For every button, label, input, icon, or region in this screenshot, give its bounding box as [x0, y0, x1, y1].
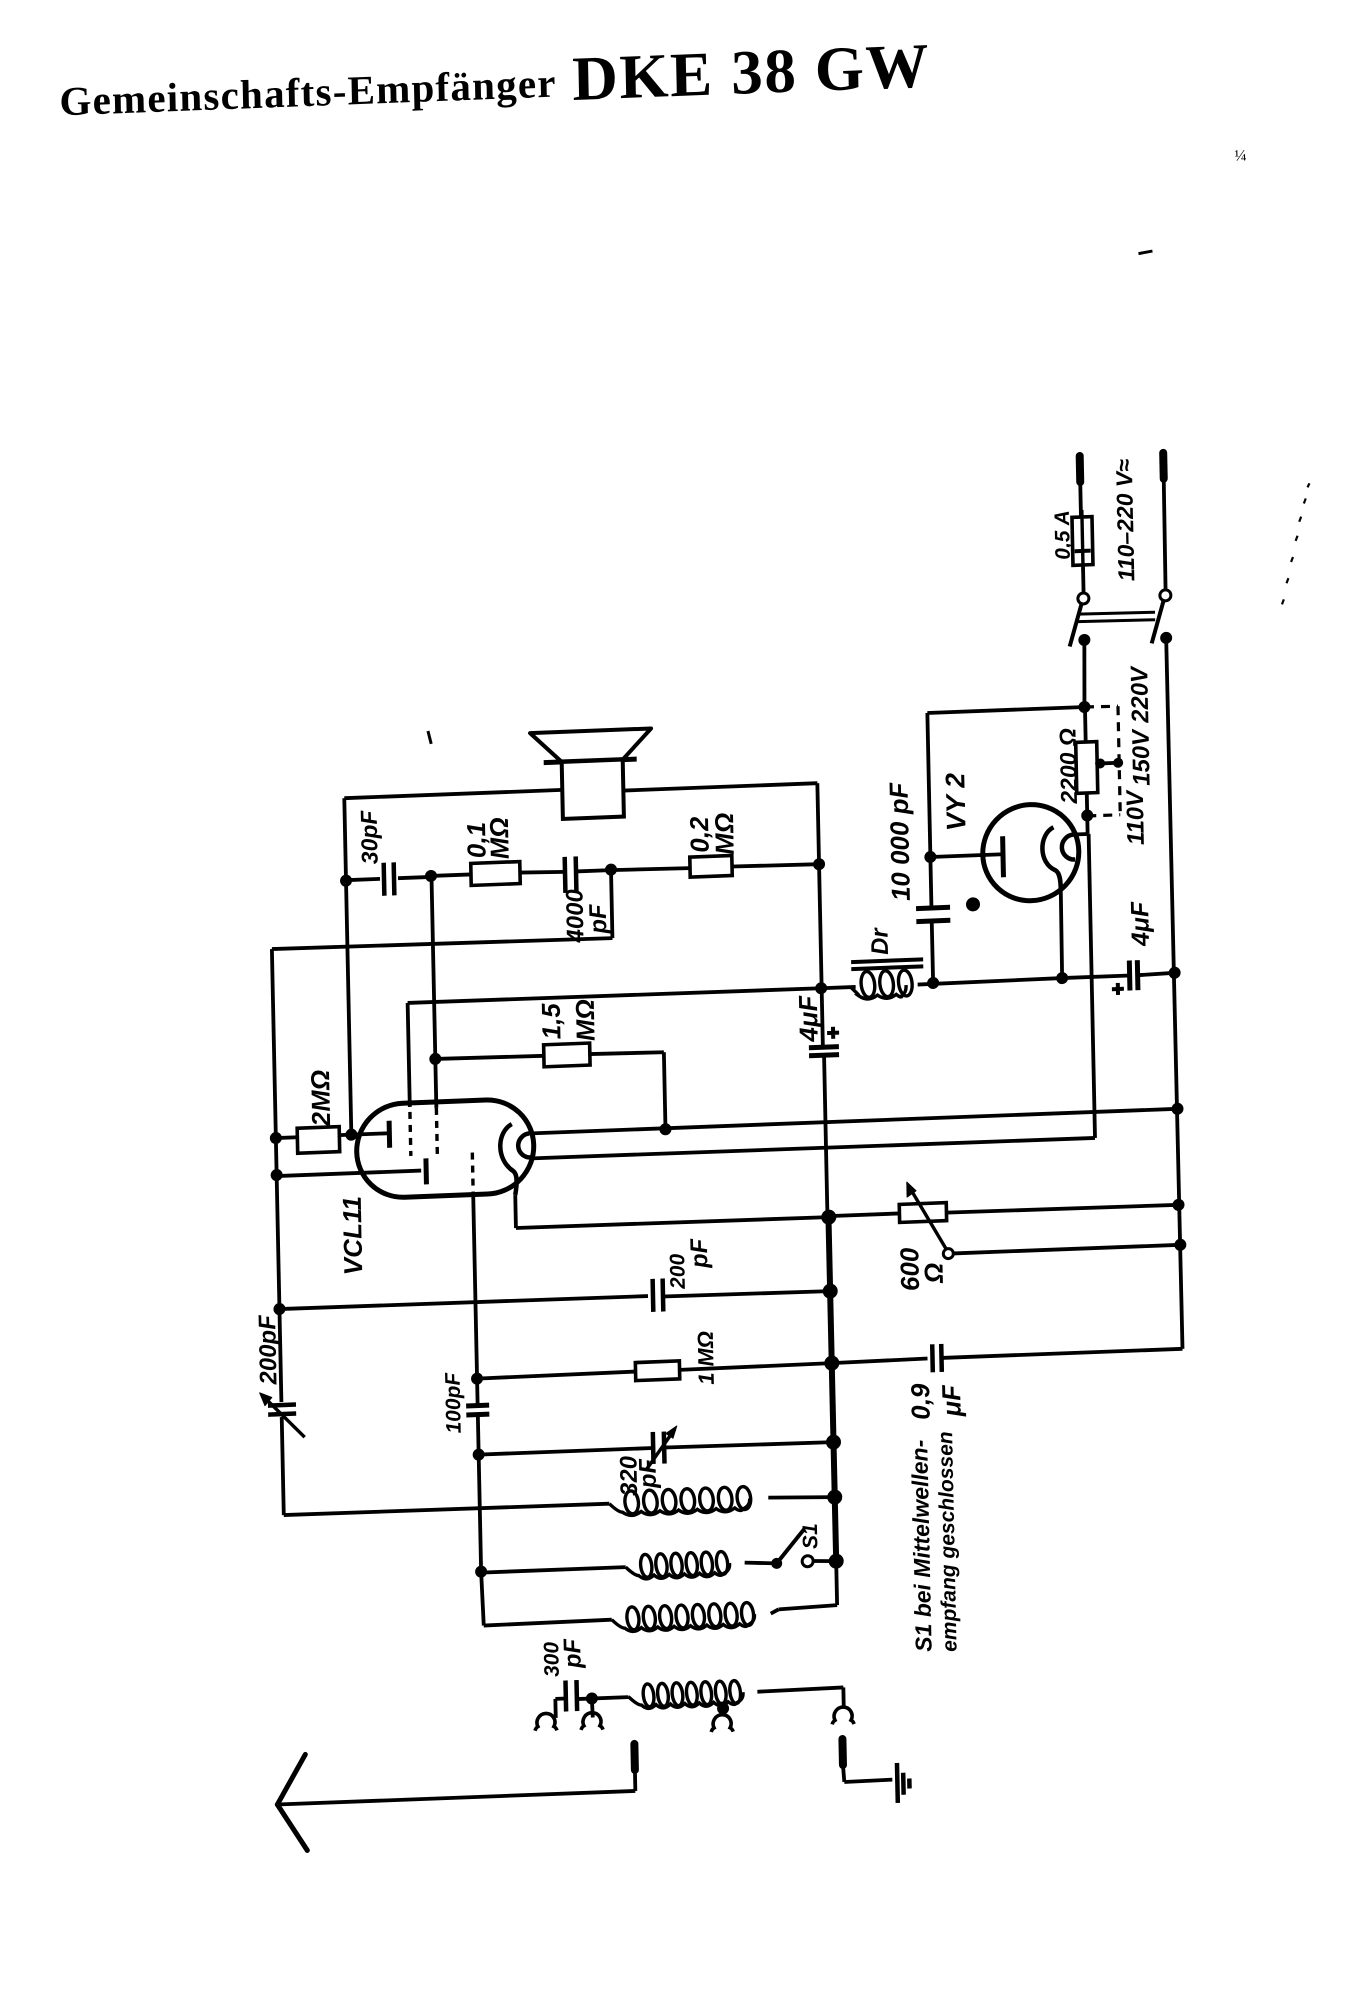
svg-text:empfang geschlossen: empfang geschlossen	[934, 1431, 962, 1652]
node tap left	[1095, 758, 1105, 768]
tube VCL11 envelope	[356, 1098, 535, 1199]
wire 300pF left	[555, 1697, 566, 1701]
node 30pF corner	[340, 874, 352, 886]
node screen rail at main vertical	[815, 982, 827, 994]
wire coil3 left	[484, 1620, 612, 1626]
dashed vertical taps	[1118, 706, 1120, 815]
capacitor 0,9uF	[930, 1344, 935, 1372]
capacitor 100pF	[466, 1403, 489, 1409]
svg-text:Gemeinschafts-Empfänger: Gemeinschafts-Empfänger	[59, 60, 556, 125]
wire screen rail	[408, 987, 821, 1004]
wire 600 right	[946, 1204, 1179, 1214]
wire 30pF line	[346, 879, 380, 880]
node 600 right rail	[1172, 1199, 1184, 1211]
svg-text:4μF: 4μF	[1126, 901, 1155, 948]
wire right prong down	[1163, 479, 1166, 590]
svg-text:150V: 150V	[1127, 727, 1155, 786]
wire 2M left	[276, 1135, 298, 1140]
wire 1,5M right	[590, 1051, 664, 1055]
svg-text:S1: S1	[799, 1523, 823, 1550]
wire 150V tap	[1097, 761, 1119, 766]
svg-text:1,5: 1,5	[536, 1002, 567, 1040]
node frame top right	[1078, 701, 1090, 713]
wire B+ rail left	[821, 987, 856, 988]
wire right vertical speaker/0.2M/rail	[817, 783, 823, 1047]
wire 30pF left vertical	[344, 798, 351, 1135]
wire 320pF line	[479, 1448, 654, 1455]
wire coil2 left	[481, 1567, 625, 1572]
wire VCL11 cathode down	[513, 1195, 517, 1228]
wire 100pF down	[476, 1415, 481, 1455]
wire 4uF first to junction	[824, 1055, 827, 1215]
svg-text:10 000 pF: 10 000 pF	[883, 781, 915, 902]
scanner streak dashes	[1282, 599, 1284, 604]
node 2M left	[270, 1132, 282, 1144]
svg-text:100pF: 100pF	[441, 1371, 465, 1434]
fuse 0,5A	[1072, 517, 1093, 566]
wire 4000pF return horizontal	[272, 936, 613, 951]
wire VY2 heater lead	[1074, 832, 1088, 836]
wire coil2 node down	[481, 1572, 484, 1626]
node B+ right rail	[1168, 967, 1180, 979]
tube grid dash 2	[435, 1108, 439, 1154]
wire grid vertical from 30pF node	[431, 876, 436, 1108]
wire switch to frame	[1083, 640, 1086, 707]
wire 1M line right	[680, 1363, 832, 1370]
node 30pF / 0,1M / grid line	[425, 870, 437, 882]
wire speaker to right corner	[623, 783, 817, 790]
svg-text:pF: pF	[585, 902, 613, 935]
svg-text:Ω: Ω	[919, 1262, 949, 1284]
wire 4uF2 to right rail	[1138, 973, 1175, 975]
coil L4 antenna	[628, 1692, 743, 1709]
triode grid bar	[387, 1121, 393, 1148]
VY2 plate bar	[1000, 836, 1006, 877]
capacitor 200pF variable left	[268, 1405, 296, 1406]
switch S1 contact	[771, 1558, 782, 1569]
resistor 0,2M	[690, 856, 732, 878]
wire heater vertical to VY2	[1089, 834, 1095, 1138]
resistor 1,5M	[544, 1043, 590, 1067]
capacitor 30pF	[381, 863, 386, 896]
svg-text:VCL11: VCL11	[337, 1196, 369, 1276]
antenna arrow	[276, 1754, 306, 1804]
plug pin antenna	[630, 1744, 639, 1770]
VCL11 heater loop	[518, 1133, 531, 1157]
dashed 110V	[1087, 815, 1120, 816]
node tap right	[1113, 758, 1123, 768]
wire 0,1M line	[431, 874, 471, 876]
speck right margin dash	[1138, 251, 1152, 254]
VCL11 cathode arc	[500, 1124, 517, 1196]
wire 200pF line left	[279, 1295, 648, 1310]
svg-text:μF: μF	[936, 1383, 967, 1418]
choke Dr core bars	[851, 959, 923, 962]
svg-text:220V: 220V	[1126, 664, 1154, 724]
node switch left	[1078, 634, 1090, 646]
wire 0,2M to vertical	[732, 863, 819, 867]
dashed 220V	[1085, 706, 1118, 708]
svg-text:MΩ: MΩ	[709, 812, 740, 855]
wire coil1 right	[768, 1495, 834, 1500]
node rail cathode junction	[821, 1209, 836, 1225]
switch left contact	[1078, 593, 1089, 604]
switch S1 lever	[776, 1529, 805, 1563]
coil L1	[609, 1498, 750, 1516]
svg-text:1 MΩ: 1 MΩ	[693, 1331, 719, 1386]
wire grid3 to 100pF	[473, 1195, 477, 1406]
mains prong left	[1076, 456, 1085, 482]
plus sign 4uF first	[827, 1027, 839, 1039]
resistor 2200	[1076, 742, 1098, 794]
tube VY2 envelope	[982, 803, 1080, 903]
triode plate bar	[423, 1158, 429, 1184]
wire 4000pF return vertical	[611, 870, 612, 938]
wiper contact 600	[943, 1248, 953, 1258]
svg-text:pF: pF	[559, 1637, 587, 1670]
node B+ 10000pF	[927, 977, 939, 989]
switch right contact	[1160, 590, 1171, 601]
wire left rail bottom to coil1	[284, 1503, 610, 1516]
svg-text:¼: ¼	[1234, 147, 1246, 164]
svg-text:2MΩ: 2MΩ	[305, 1069, 336, 1128]
coil L2	[626, 1563, 730, 1579]
VY2 cathode arc	[1042, 827, 1061, 890]
wire 0,9uF right	[942, 1349, 1183, 1358]
node rail 1M	[824, 1355, 839, 1371]
svg-text:MΩ: MΩ	[484, 817, 515, 860]
svg-text:VY 2: VY 2	[940, 772, 971, 831]
svg-text:pF: pF	[686, 1237, 714, 1270]
speck above speaker	[428, 731, 431, 744]
wire cathode to rail	[516, 1216, 829, 1229]
ink blob	[966, 897, 980, 912]
wire 4000pF to 0,2M	[576, 870, 611, 871]
tube grid dash 3	[471, 1153, 475, 1195]
node rail 200pF	[823, 1283, 838, 1299]
wire triode plate lead	[277, 1171, 422, 1176]
wire 2M right to grid	[339, 1133, 389, 1135]
wire S1 to rail	[814, 1560, 836, 1562]
node wiper rail	[1174, 1239, 1186, 1251]
plug pin ground	[838, 1739, 847, 1765]
switch left lever	[1069, 603, 1083, 646]
node 4000pF junction	[605, 863, 617, 875]
switch linkage	[1078, 611, 1155, 615]
potentiometer 600	[899, 1203, 946, 1223]
wire 2200 top	[1083, 707, 1088, 742]
node line A right rail	[1171, 1103, 1183, 1115]
arrow on 200pF variable	[262, 1393, 305, 1439]
node coil2 left	[475, 1565, 487, 1577]
node 2200 bottom	[1081, 809, 1093, 821]
node plate lead	[924, 851, 936, 863]
node 200pF left rail	[273, 1303, 285, 1315]
wire 300pF right	[577, 1697, 629, 1699]
wire ground plug down	[843, 1765, 844, 1782]
wire 2200 bottom to heater	[1085, 816, 1089, 834]
resistor 1M	[635, 1361, 679, 1381]
node 1M left	[471, 1372, 483, 1384]
capacitor 10000pF	[916, 907, 950, 908]
svg-text:4μF: 4μF	[793, 994, 824, 1043]
capacitor 4uF first plates	[809, 1047, 839, 1048]
arrow on 320pF	[646, 1429, 676, 1469]
VY2 heater loop	[1062, 834, 1076, 860]
svg-text:2200 Ω: 2200 Ω	[1054, 728, 1082, 806]
wire B+ rail mid	[918, 978, 1063, 984]
node 300pF right	[586, 1692, 598, 1704]
node 1,5M at line A	[659, 1123, 671, 1135]
svg-text:200pF: 200pF	[254, 1313, 282, 1386]
resistor 2M	[297, 1127, 340, 1154]
plus sign 4uF second	[1112, 983, 1124, 995]
capacitor 300pF	[563, 1680, 568, 1711]
socket ground	[832, 1707, 854, 1725]
switch S1 open contact	[802, 1555, 813, 1566]
socket antenna 1	[535, 1713, 557, 1731]
wire top rail from 30pF corner to speaker	[344, 790, 562, 798]
node rail coil1	[827, 1489, 842, 1505]
wire 1M line left	[477, 1372, 636, 1379]
svg-text:30pF: 30pF	[356, 809, 383, 865]
wire VY2 plate lead	[930, 854, 1003, 857]
capacitor 4uF second	[1127, 961, 1133, 991]
wire right rail	[1166, 638, 1182, 1349]
wire coil4 right	[757, 1687, 843, 1691]
wire thick rail	[828, 1215, 836, 1562]
wire 100pF node down	[479, 1455, 481, 1572]
svg-text:pF: pF	[634, 1457, 662, 1490]
wire 0,9uF line	[832, 1358, 928, 1363]
wire B+ to 4uF2	[1062, 976, 1130, 979]
node rail S1	[829, 1553, 844, 1569]
wire left rail	[272, 949, 282, 1402]
wire 600 left	[828, 1213, 899, 1216]
tube grid dash 1	[408, 1112, 412, 1156]
coil L3	[612, 1614, 755, 1632]
mains prong right	[1159, 453, 1168, 479]
node rail 320pF	[826, 1434, 841, 1450]
wire fuse to switch	[1081, 565, 1085, 593]
capacitor 4000pF	[562, 857, 567, 893]
ground symbol	[895, 1763, 900, 1803]
wire coil2 to S1	[745, 1561, 777, 1564]
wire screen vertical	[408, 1003, 410, 1107]
wire socket2 drop	[590, 1698, 595, 1717]
svg-text:DKE 38 GW: DKE 38 GW	[572, 30, 929, 113]
capacitor 200pF mid	[650, 1279, 655, 1312]
svg-text:110V: 110V	[1122, 788, 1150, 845]
node 0,2M right	[813, 858, 825, 870]
wire 2200 bottom	[1085, 793, 1089, 816]
resistor 0,1M	[471, 862, 520, 886]
wire prong to fuse	[1078, 482, 1083, 517]
node switch right	[1160, 632, 1172, 644]
node grid junction	[345, 1128, 357, 1140]
wire VY2 frame top	[927, 707, 1085, 713]
wire antenna plug down	[633, 1770, 637, 1791]
socket antenna 2	[581, 1712, 603, 1730]
coil L4 tap	[721, 1702, 725, 1709]
svg-text:Dr: Dr	[866, 926, 894, 955]
capacitor 320pF variable	[651, 1432, 656, 1464]
node 320pF left	[473, 1448, 485, 1460]
svg-text:0,5 A: 0,5 A	[1051, 510, 1075, 560]
wire VY2 frame left lower	[932, 921, 933, 983]
node B+ VY2 cathode	[1056, 972, 1068, 984]
wire line A heater top	[531, 1109, 1177, 1134]
socket tap	[711, 1714, 733, 1732]
svg-text:MΩ: MΩ	[570, 999, 601, 1042]
wire wiper to rail	[953, 1245, 1180, 1254]
node 1,5M left	[429, 1053, 441, 1065]
arrow on 600	[910, 1187, 948, 1254]
choke Dr	[851, 985, 907, 1000]
svg-text:0,9: 0,9	[905, 1383, 936, 1421]
wire VY2 cathode down	[1060, 889, 1062, 978]
node coil4 tap	[717, 1702, 729, 1714]
wire line B heater bottom	[532, 1137, 1095, 1159]
wire coil3 right up	[771, 1609, 779, 1613]
svg-text:110–220 V≈: 110–220 V≈	[1111, 458, 1140, 581]
wire 1,5M left	[435, 1055, 544, 1060]
wire 200pF line right	[663, 1290, 830, 1297]
wire VY2 frame left upper	[927, 713, 931, 908]
svg-text:S1 bei Mittelwellen-: S1 bei Mittelwellen-	[906, 1439, 936, 1652]
speaker	[530, 728, 652, 763]
switch right lever	[1151, 600, 1165, 643]
node plate lead on rail	[271, 1169, 283, 1181]
